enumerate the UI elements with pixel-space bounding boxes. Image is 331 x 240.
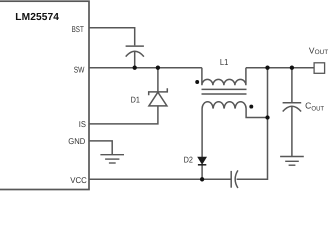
diode D1 zener cathode bar bbox=[149, 88, 168, 95]
capacitor C-BST (bootstrap) bbox=[126, 46, 144, 57]
svg-text:OUT: OUT bbox=[315, 49, 329, 56]
transformer L1 secondary winding bbox=[202, 102, 267, 157]
junction dot COUT / top wire bbox=[290, 66, 294, 70]
wire BST pin to bootstrap cap bbox=[89, 28, 135, 46]
junction dot BST cap / SW node bbox=[133, 66, 137, 70]
wire rail node to C-VCC (right vertical rail) bbox=[237, 68, 268, 180]
junction dot D1 / SW node bbox=[156, 66, 160, 70]
svg-text:LM25574: LM25574 bbox=[15, 12, 59, 23]
svg-text:VCC: VCC bbox=[70, 175, 87, 185]
svg-text:D2: D2 bbox=[184, 154, 194, 164]
wire VCC rail (VCC pin to C-VCC) bbox=[89, 178, 231, 180]
diode D1 triangle bbox=[149, 92, 167, 106]
ground symbol at GND pin bbox=[100, 155, 124, 163]
svg-text:BST: BST bbox=[72, 24, 84, 34]
capacitor C-VCC plates bbox=[231, 170, 238, 188]
L1 primary phase dot bbox=[195, 80, 199, 84]
diode D2 (filled) bbox=[198, 157, 206, 165]
L1 secondary phase dot bbox=[249, 105, 253, 109]
wire COUT bottom to ground bbox=[291, 107, 293, 157]
svg-text:L1: L1 bbox=[220, 57, 228, 67]
wire SW rail (SW pin to L1 primary) bbox=[89, 67, 202, 69]
ground symbol at COUT bbox=[280, 157, 304, 166]
wire GND pin to ground bbox=[89, 141, 112, 155]
svg-text:SW: SW bbox=[74, 64, 85, 74]
junction dot rail / top wire bbox=[265, 66, 269, 70]
wire top rail L1 to VOUT terminal bbox=[246, 67, 314, 69]
svg-text:D1: D1 bbox=[131, 94, 141, 104]
IC U1 LM25574 box bbox=[0, 1, 89, 189]
wire SW node to D1 cathode bbox=[157, 68, 159, 92]
svg-text:OUT: OUT bbox=[311, 106, 324, 113]
transformer L1 primary winding bbox=[202, 68, 246, 86]
wire D2 cathode to VCC rail bbox=[201, 165, 203, 180]
terminal VOUT box bbox=[314, 63, 325, 74]
wire C-BST bottom to SW node bbox=[134, 52, 136, 68]
transformer L1 core bbox=[202, 89, 247, 94]
wire D1 anode to IS pin bbox=[89, 106, 158, 124]
junction dot L1 secondary / rail bbox=[265, 115, 269, 119]
svg-text:GND: GND bbox=[68, 136, 85, 146]
svg-text:C: C bbox=[305, 100, 311, 110]
svg-text:IS: IS bbox=[79, 119, 87, 129]
junction dot D2 / VCC rail bbox=[200, 177, 204, 181]
wire COUT top lead bbox=[291, 68, 293, 103]
capacitor COUT plates bbox=[283, 103, 302, 112]
